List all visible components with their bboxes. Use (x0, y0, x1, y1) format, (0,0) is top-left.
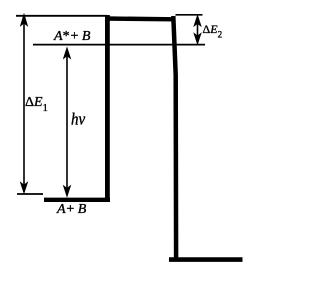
upper reference line for ΔE1 (top-left thin line) (16, 15, 107, 17)
potential wall: left vertical thick bar (105, 15, 110, 202)
excited level line A*+B (thin horizontal line) (33, 44, 205, 46)
dimension arrow ΔE2 (double-headed vertical arrow) (194, 16, 201, 44)
label hν (photon energy) (71, 112, 85, 129)
label A+B (ground state) (57, 203, 86, 217)
ground level line A+B (thick horizontal line) (44, 198, 110, 202)
label A*+B (excited state) (54, 30, 90, 44)
upper reference tick for ΔE2 (176, 14, 203, 16)
label ΔE2 (energy gap 2) (203, 23, 223, 40)
potential wall: bottom thick bar (169, 257, 243, 262)
potential wall: right vertical thick bar (173, 16, 176, 260)
potential wall: top thick bar (105, 16, 175, 21)
photon arrow hν (double-headed vertical arrow) (64, 48, 71, 196)
label ΔE1 (energy gap 1) (25, 96, 48, 115)
lower reference tick for ΔE1 (17, 193, 43, 195)
dimension arrow ΔE1 (double-headed vertical arrow) (21, 15, 28, 193)
